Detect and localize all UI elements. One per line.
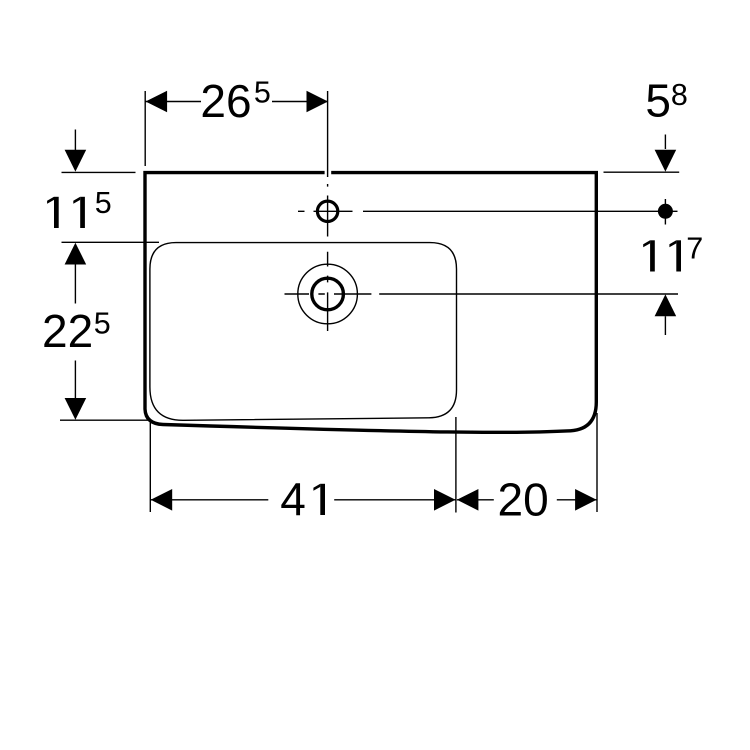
dim 11-5 arrow down bbox=[74, 130, 76, 151]
dim 20 arrow right bbox=[575, 489, 597, 511]
inner bowl bbox=[150, 243, 457, 421]
dim 41 arrow left bbox=[151, 489, 173, 511]
vertical centerline bbox=[327, 91, 329, 331]
dim 20 arrow left bbox=[457, 489, 479, 511]
bottom dim extension line right bbox=[596, 413, 598, 512]
faucet reference dot ticks bbox=[664, 199, 666, 225]
dim 22-5 top tick bbox=[62, 241, 160, 243]
svg-text:4: 4 bbox=[280, 473, 306, 525]
dim 26-5 arrow left bbox=[146, 91, 168, 113]
svg-text:5: 5 bbox=[645, 74, 671, 126]
dim 11-7 arrow up bbox=[655, 294, 677, 316]
faucet reference dot bbox=[658, 204, 673, 219]
dim 26-5 arrow right bbox=[307, 91, 329, 113]
faucet crosshair horizontal bbox=[298, 210, 678, 212]
svg-text:26: 26 bbox=[200, 75, 251, 127]
dim 26-5 extension line left bbox=[144, 91, 146, 166]
dim 22-5 arrow up bbox=[65, 243, 87, 265]
dim 41 line bbox=[150, 499, 456, 501]
drain crosshair horizontal bbox=[285, 293, 679, 295]
svg-text:22: 22 bbox=[42, 305, 93, 357]
basin outer outline bbox=[145, 173, 596, 433]
top edge gap at centerline bbox=[325, 169, 332, 177]
dim 20 line bbox=[457, 499, 597, 501]
dim 26-5 line bbox=[145, 101, 328, 103]
faucet hole bbox=[317, 201, 337, 221]
bottom dim extension line left bbox=[149, 421, 151, 512]
dim 11-5 top tick bbox=[62, 171, 136, 173]
svg-text:7: 7 bbox=[686, 231, 703, 265]
bottom dim extension line middle bbox=[455, 417, 457, 513]
svg-text:5: 5 bbox=[254, 76, 271, 110]
dim 5-8 tick bbox=[604, 171, 680, 173]
svg-text:20: 20 bbox=[498, 474, 549, 526]
dim 41 arrow right bbox=[434, 489, 456, 511]
dim 22-5 arrow down bbox=[74, 361, 76, 399]
drain outer circle bbox=[298, 264, 358, 324]
dim 11-5 text bbox=[47, 197, 85, 228]
svg-text:5: 5 bbox=[95, 186, 112, 220]
svg-text:8: 8 bbox=[671, 78, 688, 112]
dim 11-7 text bbox=[643, 240, 681, 271]
dim 5-8 arrow down bbox=[664, 135, 666, 150]
drain inner circle bbox=[312, 278, 344, 310]
dim 22-5 bottom tick bbox=[60, 419, 151, 421]
svg-text:5: 5 bbox=[94, 306, 111, 340]
